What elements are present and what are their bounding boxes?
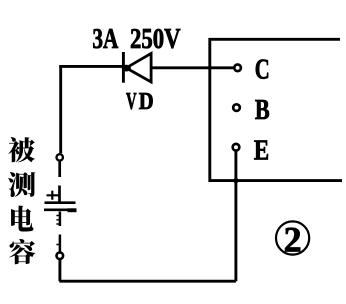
terminal: capacitor negative test clip (open circle) [57,252,64,259]
label E [254,135,269,167]
svg-text:C: C [255,54,270,86]
wire: bottom rail from capacitor negative clip to E branch [59,280,236,283]
junction: E wire crossing socket box edge [233,178,238,183]
capacitor positive lead segment [58,186,61,203]
label 测 (capacitor under test) [8,172,35,197]
socket box (transistor socket of multimeter, open right) [210,39,342,180]
terminal: capacitor positive test clip (open circle) [57,154,63,160]
svg-text:D: D [139,89,154,115]
wire: negative clip down to bottom rail [58,260,61,281]
terminal C (open circle) [234,65,241,72]
label C [255,54,270,86]
wire: terminal E down through box edge to bottom rail corner [234,151,237,281]
wire: diode anode to terminal C [151,66,233,69]
svg-text:V: V [126,89,137,115]
terminal E (open circle) [233,144,240,151]
label 被 (capacitor under test) [8,137,35,162]
label 容 (capacitor under test) [9,239,35,264]
svg-text:B: B [255,94,270,126]
terminal B (open circle) [233,104,240,111]
svg-text:2: 2 [284,219,302,259]
label B [255,94,270,126]
svg-text:250V: 250V [130,23,181,55]
diode VD triangle (anode, pointing left) [122,53,151,82]
label VD [126,89,154,115]
label 电 (capacitor under test) [11,205,33,231]
label 3A 250V (diode rating) [92,23,180,55]
wire: node A corner to diode cathode (top horizontal) [59,65,122,68]
wire: clip down to capacitor positive lead (broken) [58,162,61,177]
capacitor plate (negative) with ink blob right end [44,208,77,212]
svg-text:E: E [254,135,269,167]
capacitor negative lead (broken segments with ticks) [56,212,60,252]
polarity mark + [47,191,60,200]
capacitor plate (positive) [45,201,76,204]
figure number 2 (circled) [276,219,309,259]
diode VD cathode bar [122,52,125,83]
wire: left vertical from node A down to capacitor positive clip [59,65,62,153]
svg-text:3A: 3A [92,23,118,55]
